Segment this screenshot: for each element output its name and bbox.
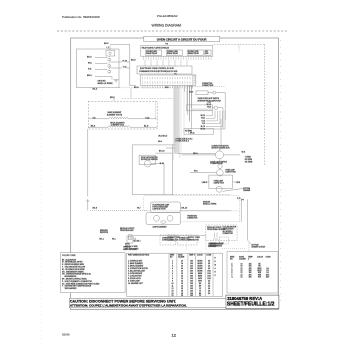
outlet J1/J3 prong symbols xyxy=(129,233,219,240)
svg-text:COLOR: COLOR xyxy=(257,257,264,259)
connector P5 net list text xyxy=(159,130,195,142)
legend numbered component list xyxy=(128,259,143,283)
svg-text:CAL/MM: CAL/MM xyxy=(239,258,246,261)
svg-text:BL-10: BL-10 xyxy=(201,126,205,128)
svg-text:318046759 REV:A: 318046759 REV:A xyxy=(227,296,262,301)
svg-text:15: 15 xyxy=(172,295,174,297)
relay board relay labels K1-K4 xyxy=(142,47,210,56)
right margin dotted line xyxy=(280,40,282,306)
svg-text:MOTEUR DE VERROU: MOTEUR DE VERROU xyxy=(141,159,159,161)
svg-text:OR-TERM: OR-TERM xyxy=(245,162,253,164)
svg-text:NO.: NO. xyxy=(230,259,234,261)
note text and surface unit / supply cord connector labels xyxy=(125,236,224,250)
svg-text:CONNECTOR: CONNECTOR xyxy=(202,83,213,85)
connector P1 end cell pins xyxy=(193,75,196,85)
svg-text:P1: P1 xyxy=(175,73,177,75)
svg-text:COLOR: COLOR xyxy=(197,255,204,257)
svg-text:TAPE MARKER: TAPE MARKER xyxy=(65,287,78,290)
terminal connector J2 pin grid xyxy=(168,235,177,241)
svg-text:BOTTOM: BOTTOM xyxy=(243,188,250,190)
svg-text:MISE A LA TERRE: MISE A LA TERRE xyxy=(98,82,114,85)
svg-text:W-1 BK-1: W-1 BK-1 xyxy=(134,240,141,242)
svg-text:CONNECTEUR: CONNECTEUR xyxy=(202,85,214,87)
svg-text:ATTENTION: COUPEZ L'ALIMENTATI: ATTENTION: COUPEZ L'ALIMENTATION AVANT D… xyxy=(70,304,187,308)
svg-text:18: 18 xyxy=(181,295,183,297)
svg-text:CONNECTOR: CONNECTOR xyxy=(223,233,234,235)
svg-text:OVEN CIRCUIT // CIRCUIT DU FOU: OVEN CIRCUIT // CIRCUIT DU FOUR xyxy=(157,37,208,41)
drawing number box 318046759 REV:A xyxy=(226,295,279,309)
svg-text:Publication No. 5995460408: Publication No. 5995460408 xyxy=(62,15,100,19)
splice junction symbol xyxy=(133,238,136,243)
svg-text:FOR FLUORESCENT: FOR FLUORESCENT xyxy=(153,207,169,209)
supply wire table rows xyxy=(230,256,271,279)
supply wire to outlet J1 and terminal block TB1 xyxy=(128,235,228,244)
svg-text:DOUBLE LINE: DOUBLE LINE xyxy=(146,51,157,53)
wire specification table (center) xyxy=(127,253,223,296)
svg-text:CONN: CONN xyxy=(266,257,272,259)
door latch motor M1 (oven door box) xyxy=(132,145,230,195)
svg-text:COOLING MOTOR: COOLING MOTOR xyxy=(223,226,238,228)
svg-text:W-10: W-10 xyxy=(201,118,205,120)
svg-text:COMMANDE FOUR ELECTRONIQUE DU: COMMANDE FOUR ELECTRONIQUE DU SUR xyxy=(139,70,178,73)
wire table numeric rows xyxy=(172,258,217,298)
svg-text:W-10: W-10 xyxy=(189,92,193,94)
svg-text:BK-TERM: BK-TERM xyxy=(245,159,253,161)
svg-text:DOOR LIGHT SWITCH: DOOR LIGHT SWITCH xyxy=(210,161,227,163)
svg-text:SHEET/FEUILLE:1/2: SHEET/FEUILLE:1/2 xyxy=(227,302,275,308)
svg-text:200: 200 xyxy=(249,277,252,279)
svg-text:12: 12 xyxy=(172,333,177,338)
svg-text:BORNIER: BORNIER xyxy=(210,246,218,248)
svg-text:CONVECTION MOTOR: CONVECTION MOTOR xyxy=(212,146,230,148)
svg-text:WIRE: WIRE xyxy=(170,255,174,257)
svg-text:DOUBLE LINE: DOUBLE LINE xyxy=(167,51,178,53)
svg-text:W-A: W-A xyxy=(158,140,163,143)
bake element R1 and broil element R2 (dashed box with coils) xyxy=(88,98,157,129)
svg-text:W-10: W-10 xyxy=(207,107,211,109)
svg-text:WIRING DIAGRAM: WIRING DIAGRAM xyxy=(152,24,182,28)
dotted dividers above wire table xyxy=(186,235,206,251)
svg-text:FOR 2ND SHEET: FOR 2ND SHEET xyxy=(125,248,139,250)
svg-text:ELEMENT VOUTE: ELEMENT VOUTE xyxy=(107,114,123,116)
svg-text:BOTTOM: BOTTOM xyxy=(252,244,259,246)
svg-text:TEMP C: TEMP C xyxy=(189,255,196,257)
surface-unit selector switch S1 (top-left box) xyxy=(77,45,130,88)
svg-text:RESISTOR: RESISTOR xyxy=(100,232,109,234)
svg-text:CURRENT COIL: CURRENT COIL xyxy=(111,125,124,127)
harness braid crosshatch xyxy=(175,86,179,154)
electronic oven control U1: relay board and connectors xyxy=(130,44,265,165)
svg-text:10. DRAWER UNIT: 10. DRAWER UNIT xyxy=(128,282,143,285)
svg-text:DOUBLE LINE: DOUBLE LINE xyxy=(188,51,199,53)
svg-text:R-10: R-10 xyxy=(202,120,206,122)
supply wire table (right) xyxy=(227,252,278,293)
svg-text:1/4: 1/4 xyxy=(208,293,210,295)
wire table part-name list xyxy=(128,259,149,285)
legend color-code rows xyxy=(62,258,100,290)
svg-text:PRISE REGULIER: PRISE REGULIER xyxy=(120,230,134,232)
svg-text:GROUND: GROUND xyxy=(203,201,211,203)
svg-text:BK-A: BK-A xyxy=(93,87,98,90)
wire color code legend table xyxy=(61,253,126,293)
wire fan to connector P5 (BK-10..OR-10 nets) xyxy=(184,111,225,134)
svg-text:CONNECTOR BK-6 W-6: CONNECTOR BK-6 W-6 xyxy=(175,138,193,140)
svg-text:105: 105 xyxy=(190,295,193,297)
main schematic frame xyxy=(71,38,279,310)
svg-text:BK-10: BK-10 xyxy=(201,115,206,117)
svg-text:CONNECTOR: CONNECTOR xyxy=(187,218,198,220)
svg-text:Y-TERM: Y-TERM xyxy=(245,157,252,159)
wire harness bundle from control P1 (vertical wires) xyxy=(119,85,193,160)
svg-text:CONNECTOR: CONNECTOR xyxy=(188,240,200,242)
door lock switch S2, door light switch S3, convection motor M2, oven lamps DS1/DS2 xyxy=(182,85,243,192)
console enclosure (dotted) xyxy=(144,196,240,211)
svg-text:COLOR CODE: COLOR CODE xyxy=(62,255,76,257)
title box: OVEN CIRCUIT // CIRCUIT DU FOUR xyxy=(144,36,220,41)
page fold dotted line xyxy=(40,58,42,340)
svg-text:OR-10: OR-10 xyxy=(200,129,205,131)
svg-text:Y-10: Y-10 xyxy=(202,123,205,125)
svg-text:P5 TERM: P5 TERM xyxy=(185,130,193,132)
control connector P1 pin rows xyxy=(143,77,191,84)
caution notice box xyxy=(69,298,226,308)
svg-text:BK-10: BK-10 xyxy=(182,208,188,210)
svg-text:14: 14 xyxy=(241,277,243,279)
svg-text:BK-10: BK-10 xyxy=(190,133,195,135)
net labels A-10/BK-10/W-10 and riser wires xyxy=(207,101,212,109)
svg-text:W-10 BK-10: W-10 BK-10 xyxy=(159,136,168,138)
svg-text:BK-10: BK-10 xyxy=(159,151,165,153)
svg-text:02/06: 02/06 xyxy=(62,333,70,337)
svg-text:BK-10: BK-10 xyxy=(207,104,212,106)
relay board connector P4 pin ticks xyxy=(144,57,212,59)
svg-text:3/16: 3/16 xyxy=(266,277,269,279)
svg-text:ELECTRONIC OVEN CONTROL DU SUR: ELECTRONIC OVEN CONTROL DU SUR xyxy=(140,68,174,70)
svg-text:OVEN DOOR LIGHT SWITCH: OVEN DOOR LIGHT SWITCH xyxy=(198,98,220,100)
svg-text:PGLEF388ES2: PGLEF388ES2 xyxy=(157,14,178,18)
fluorescent lamp assembly DS3/DS4, outlet J1, connectors, ground wires xyxy=(86,129,249,256)
wire table column headers xyxy=(128,254,212,259)
dashed page separator line (top) xyxy=(57,30,287,32)
